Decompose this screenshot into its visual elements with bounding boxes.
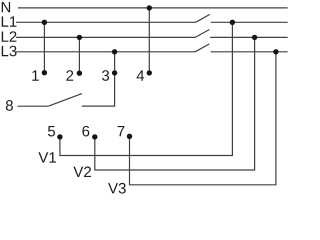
switch blade on L2 (195, 30, 209, 38)
wire node 2 drop from L2 (78, 37, 80, 73)
label terminal 8 (6, 100, 13, 111)
wire V1 loop: node 5 down, right, up to L1 (60, 22, 233, 155)
wire node 4 drop from N (148, 8, 150, 73)
wire node 3 drop from L3 to switch 8 contact (82, 52, 115, 106)
label terminal 2 (66, 70, 73, 80)
junction dot V2 feed on L2 (252, 35, 257, 40)
label terminal 7 (118, 126, 125, 136)
label terminal 3 (102, 70, 109, 81)
terminal dot 4 (147, 70, 152, 75)
junction dot node 2 on L2 (77, 35, 82, 40)
wire L3 bus left segment (16, 51, 195, 53)
wire N bus (18, 7, 288, 9)
label voltmeter V2 (73, 167, 91, 177)
junction dot node 1 on L1 (42, 20, 47, 25)
label net L1 (2, 16, 17, 26)
wire L2 bus left segment (16, 36, 195, 38)
label voltmeter V3 (108, 183, 126, 194)
label voltmeter V1 (38, 152, 56, 162)
terminal dot 3 (112, 70, 117, 75)
label terminal 1 (32, 70, 38, 80)
junction dot V3 feed on L3 (273, 49, 278, 54)
wire terminal 8 lead (18, 105, 49, 107)
terminal dot 7 (127, 134, 132, 139)
terminal dot 6 (92, 134, 97, 139)
label terminal 4 (137, 70, 145, 80)
junction dot node 3 on L3 (112, 49, 117, 54)
wire L2 bus right segment (210, 36, 288, 38)
switch blade 8 (48, 94, 82, 107)
wire L1 bus right segment (211, 21, 288, 23)
junction dot node 4 on N (147, 5, 152, 10)
label net L2 (2, 31, 17, 41)
switch blade on L3 (195, 44, 209, 52)
switch blade on L1 (196, 14, 210, 22)
wire L1 bus left segment (16, 21, 196, 23)
wire V3 loop: node 7 down, right, up to L3 (130, 52, 276, 185)
label net L3 (2, 46, 17, 57)
label terminal 6 (82, 126, 89, 137)
wire V2 loop: node 6 down, right, up to L2 (95, 37, 255, 170)
label terminal 5 (48, 126, 55, 136)
wire L3 bus right segment (211, 51, 288, 53)
label net N (2, 2, 10, 12)
terminal dot 1 (42, 70, 47, 75)
terminal dot 5 (57, 134, 62, 139)
terminal dot 2 (77, 71, 82, 76)
wire node 1 drop from L1 (43, 22, 45, 72)
junction dot V1 feed on L1 (230, 20, 235, 25)
